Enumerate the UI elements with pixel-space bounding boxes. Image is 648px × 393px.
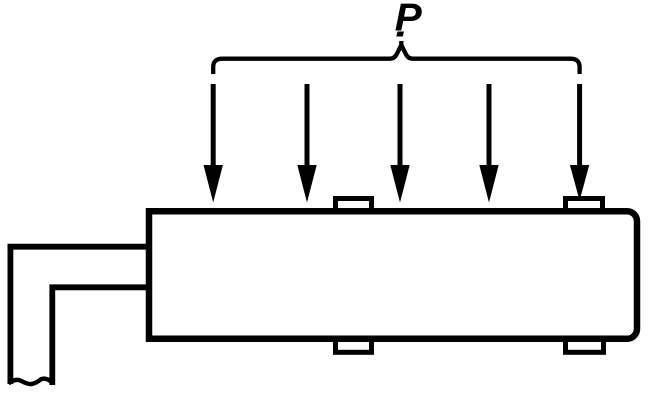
tab bottom middle xyxy=(336,339,372,353)
arrow 1 shaft xyxy=(211,84,216,170)
tab top right xyxy=(566,199,603,212)
brace left half xyxy=(213,41,401,74)
P stem fragment xyxy=(396,32,404,37)
arrow 4 head xyxy=(479,165,498,203)
arrow 3 shaft xyxy=(398,84,403,170)
arrow 5 shaft xyxy=(577,84,582,170)
body fill xyxy=(149,211,637,339)
arm inner line xyxy=(52,287,152,385)
tab bottom right xyxy=(566,339,604,353)
arrow 1 head xyxy=(204,165,223,203)
break wave xyxy=(9,379,54,385)
arrow 2 shaft xyxy=(305,84,310,170)
body outline xyxy=(149,211,637,339)
arm outer line xyxy=(10,247,152,384)
arrow 5 head xyxy=(570,165,589,201)
brace right half xyxy=(401,45,579,74)
arrow 3 head xyxy=(390,165,409,203)
tab top middle xyxy=(336,199,372,212)
arrow 4 shaft xyxy=(487,84,492,170)
arrow 2 head xyxy=(297,165,316,203)
